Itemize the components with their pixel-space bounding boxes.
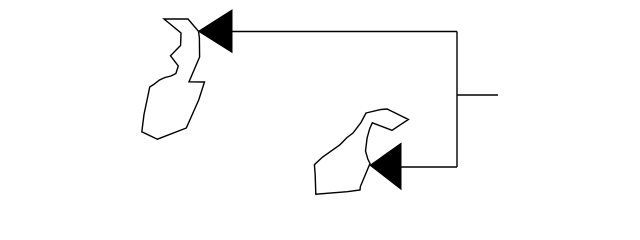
wire stub (output port) bbox=[457, 94, 498, 96]
wire vertical right bus bbox=[456, 32, 458, 168]
blob shape 1 (top-left irregular outline) bbox=[142, 19, 205, 139]
wire from arrowhead A to right vertical bbox=[232, 31, 457, 33]
blob shape 2 (bottom irregular outline with curled hook) bbox=[314, 109, 408, 194]
wire from vertical bus to arrowhead B bbox=[401, 166, 457, 168]
arrowhead B (filled triangle pointing left into blob 2) bbox=[370, 143, 401, 189]
arrowhead A (filled triangle pointing left into blob 1) bbox=[199, 10, 233, 52]
